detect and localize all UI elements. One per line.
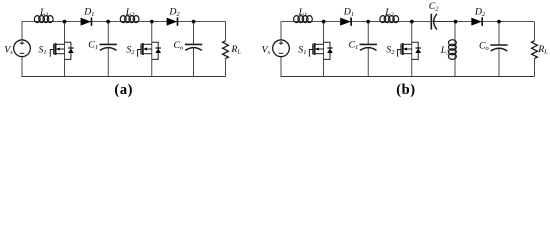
svg-text:(b): (b) bbox=[396, 82, 416, 98]
svg-text:D2: D2 bbox=[474, 7, 486, 19]
svg-text:D1: D1 bbox=[83, 7, 94, 19]
svg-text:L1: L1 bbox=[39, 7, 49, 19]
svg-text:Vs: Vs bbox=[4, 45, 13, 57]
svg-text:Co: Co bbox=[174, 40, 184, 52]
svg-text:C1: C1 bbox=[349, 40, 359, 52]
svg-text:L2: L2 bbox=[125, 7, 135, 19]
svg-text:C1: C1 bbox=[88, 40, 98, 52]
svg-text:S1: S1 bbox=[298, 44, 306, 56]
svg-text:RL: RL bbox=[230, 44, 241, 56]
svg-text:D1: D1 bbox=[343, 7, 354, 19]
svg-text:Vs: Vs bbox=[262, 45, 271, 57]
svg-text:L1: L1 bbox=[298, 7, 308, 19]
svg-text:L2: L2 bbox=[384, 7, 394, 19]
svg-text:C2: C2 bbox=[429, 1, 440, 13]
svg-text:(a): (a) bbox=[114, 82, 133, 98]
svg-text:D2: D2 bbox=[168, 7, 180, 19]
svg-text:S1: S1 bbox=[39, 44, 47, 56]
svg-text:Co: Co bbox=[479, 40, 489, 52]
svg-text:S2: S2 bbox=[126, 44, 135, 56]
svg-text:RL: RL bbox=[537, 44, 548, 56]
svg-text:S2: S2 bbox=[386, 44, 395, 56]
